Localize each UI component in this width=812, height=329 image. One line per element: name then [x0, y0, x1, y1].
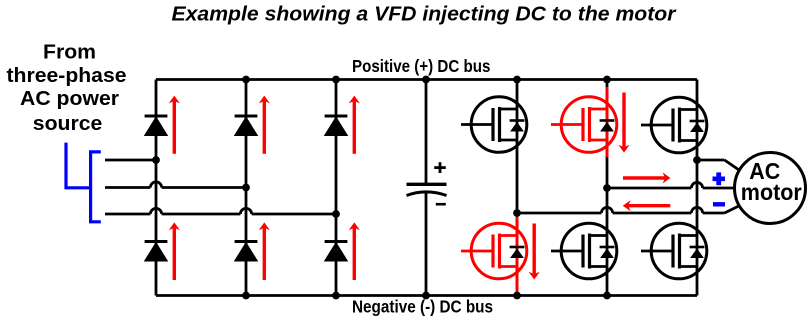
wire: inverter leg 1: [516, 80, 519, 296]
red energized segment of inverter leg 2: [606, 87, 609, 157]
junction: top bus / inv leg2: [603, 76, 611, 84]
transistor Q4 (bottom-left, on): [461, 223, 527, 279]
red arrow up (top leg1): [169, 96, 180, 154]
svg-text:AC power: AC power: [20, 88, 119, 110]
red arrow down (Q4 current): [529, 224, 540, 280]
wire: leg2 to motor + (hops leg 3): [607, 182, 735, 188]
red energized segment of inverter leg 1: [516, 217, 519, 293]
wire: negative DC bus: [156, 294, 697, 297]
diode D3 (top leg3): [325, 116, 348, 135]
label: From three-phase AC power source: [7, 42, 127, 135]
wire: phase B input (hops leg 1): [105, 182, 246, 188]
wire: rectifier leg 3: [335, 80, 338, 296]
junction: top bus / rect leg2: [242, 76, 250, 84]
transistor Q1 (top-left): [461, 97, 527, 153]
red arrow right (current into motor): [623, 172, 670, 183]
wire: rectifier leg 1: [155, 80, 158, 296]
svg-text:source: source: [33, 113, 103, 135]
junction: inv leg3 / motor wire: [693, 156, 701, 164]
red arrow down (Q2 current): [618, 93, 629, 153]
title text: [172, 4, 677, 26]
svg-text:From: From: [43, 42, 96, 64]
red arrow left (current out of motor): [623, 200, 671, 211]
red arrow up (top leg3): [349, 96, 360, 154]
diode D6 (bottom leg3): [325, 242, 348, 261]
capacitor C1: [407, 80, 447, 296]
blue - terminal label: [713, 202, 725, 206]
label: Negative (-) DC bus: [352, 297, 493, 317]
wire: inverter leg 3: [696, 80, 699, 296]
junction: phase B / leg2: [242, 184, 250, 192]
junction: bottom bus / inv leg1: [513, 292, 521, 300]
junction: inv leg1 / motor wire: [513, 209, 521, 217]
capacitor - label: [436, 203, 446, 206]
red arrow up (bottom leg1): [169, 222, 180, 280]
diode D4 (bottom leg1): [145, 242, 168, 261]
transistor Q2 (top-middle, on): [551, 97, 617, 153]
capacitor + label: [434, 162, 446, 173]
wire: phase A input: [105, 159, 156, 162]
junction: bottom bus / rect leg3: [332, 292, 340, 300]
junction: bottom bus / inv leg2: [603, 292, 611, 300]
blue bracket around phase wires: [91, 152, 101, 222]
wire: inverter leg 2: [606, 80, 609, 296]
diode D1 (top leg1): [145, 116, 168, 135]
junction: top bus / capacitor: [422, 76, 430, 84]
wire: phase C input (hops legs 1,2): [105, 208, 336, 214]
diode D2 (top leg2): [235, 116, 258, 135]
wire: motor - to leg1 (hops legs 2,3): [517, 206, 739, 213]
transistor Q5 (bottom-middle): [551, 223, 617, 279]
red arrow up (bottom leg3): [349, 222, 360, 280]
label: Positive (+) DC bus: [352, 56, 491, 76]
wire: leg3 to motor: [697, 160, 739, 170]
junction: bottom bus / capacitor: [422, 292, 430, 300]
diode D5 (bottom leg2): [235, 242, 258, 261]
svg-text:Example showing a VFD injectin: Example showing a VFD injecting DC to th…: [172, 4, 677, 26]
svg-text:Positive (+) DC bus: Positive (+) DC bus: [352, 56, 491, 76]
svg-text:motor: motor: [741, 179, 802, 205]
junction: phase A / leg1: [152, 156, 160, 164]
wire: rectifier leg 2: [245, 80, 248, 296]
junction: bottom bus / rect leg2: [242, 292, 250, 300]
junction: top bus / inv leg1: [513, 76, 521, 84]
transistor Q3 (top-right): [641, 97, 707, 153]
red arrow up (top leg2): [259, 96, 270, 154]
wire: positive DC bus: [156, 78, 697, 81]
svg-text:three-phase: three-phase: [7, 65, 127, 87]
blue lead from AC source: [66, 143, 91, 188]
junction: top bus / rect leg3: [332, 76, 340, 84]
blue + terminal label: [713, 172, 726, 185]
junction: inv leg2 / motor wire: [603, 184, 611, 192]
transistor Q6 (bottom-right): [641, 223, 707, 279]
junction: phase C / leg3: [332, 210, 340, 218]
AC motor circle: [735, 153, 806, 224]
AC motor label: [741, 158, 802, 205]
svg-text:Negative (-) DC bus: Negative (-) DC bus: [352, 297, 493, 317]
red arrow up (bottom leg2): [259, 222, 270, 280]
